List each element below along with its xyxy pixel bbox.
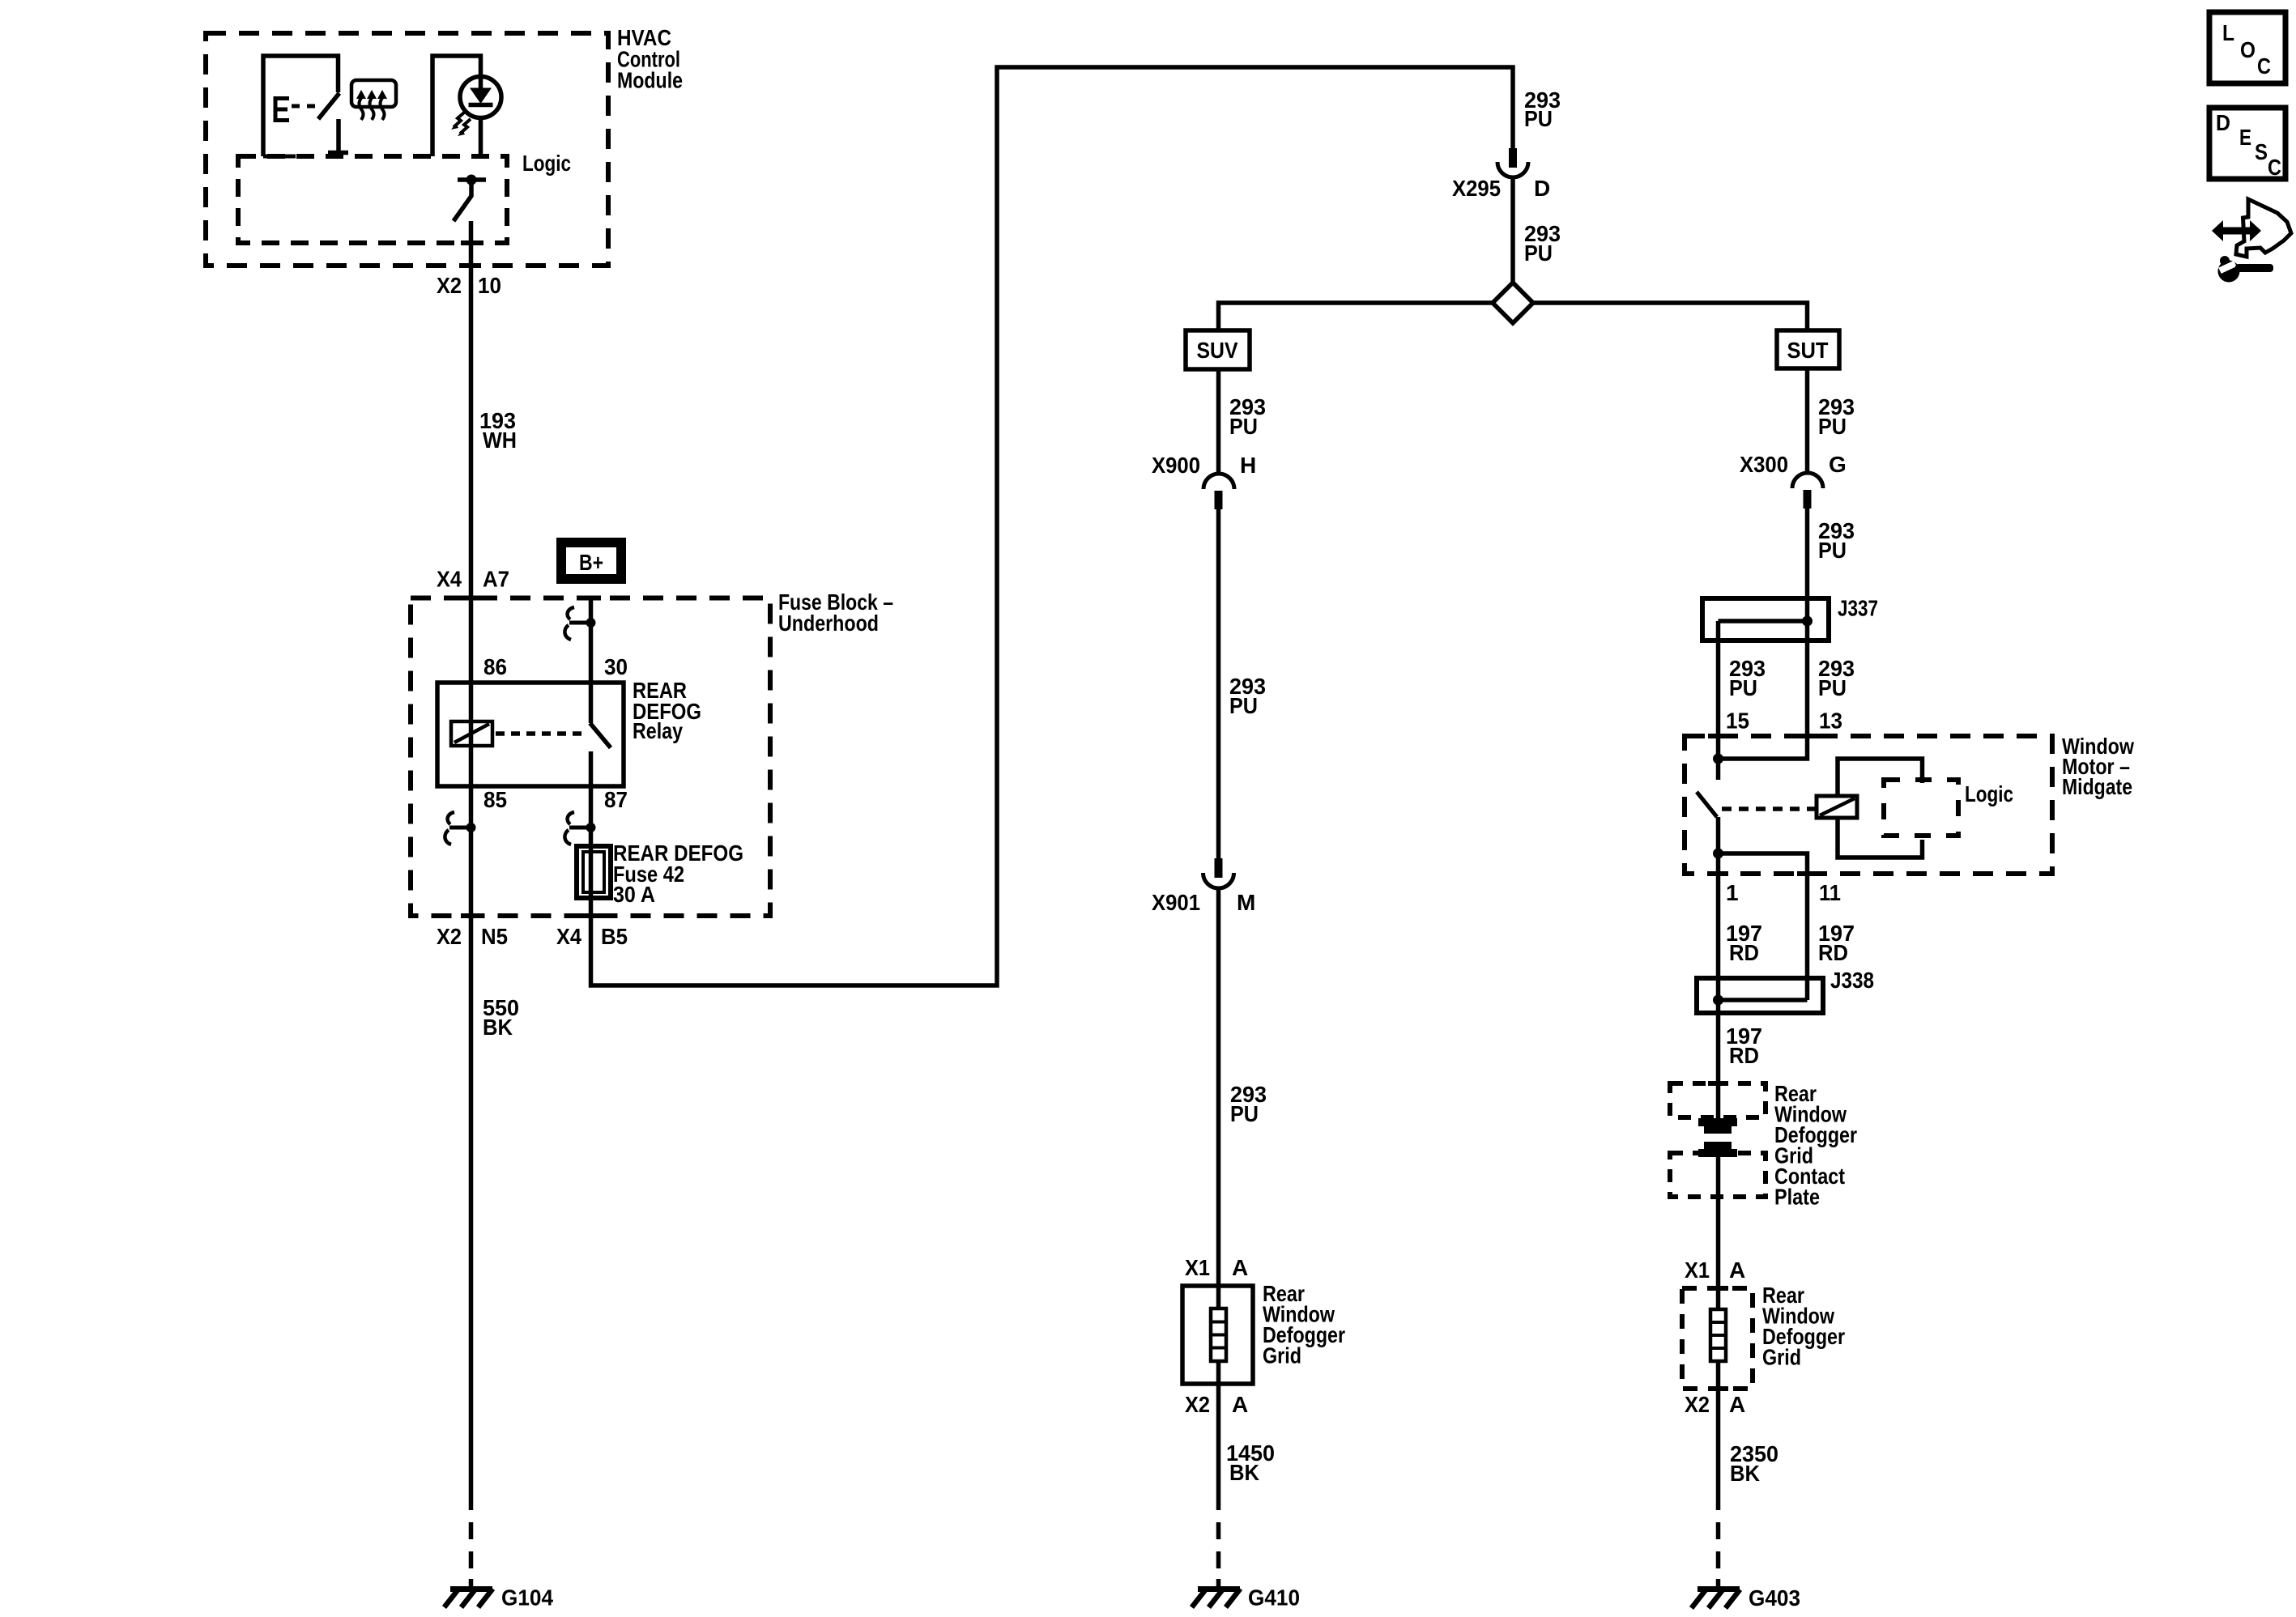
- svg-text:PU: PU: [1524, 106, 1553, 131]
- wire label 2350 BK: [1730, 1441, 1778, 1486]
- wrench icon: [2218, 256, 2274, 283]
- svg-text:30 A: 30 A: [613, 882, 655, 907]
- logic output switch contact: [458, 175, 486, 185]
- svg-text:PU: PU: [1230, 1101, 1259, 1126]
- wire label 193 WH: [479, 408, 517, 453]
- svg-text:11: 11: [1819, 880, 1841, 905]
- indicator LED box: [432, 56, 481, 156]
- connector label X900 cavity H: [1152, 453, 1256, 478]
- connector label X1 pin A right grid: [1685, 1257, 1745, 1283]
- wire label 293 PU SUV: [1229, 394, 1266, 439]
- svg-text:30: 30: [604, 654, 628, 679]
- connector label X2 pin 10: [437, 273, 501, 298]
- svg-text:BK: BK: [1730, 1461, 1760, 1486]
- svg-text:A7: A7: [483, 567, 509, 592]
- svg-text:SUT: SUT: [1787, 338, 1829, 363]
- connector label X300 cavity G: [1740, 452, 1847, 477]
- svg-text:10: 10: [478, 273, 501, 298]
- splice pack J338: [1697, 978, 1823, 1013]
- wire grid to G403: [1716, 1361, 1721, 1510]
- part replace arrow icon: [2212, 199, 2291, 257]
- tick at contact box top crossing: [1708, 1081, 1728, 1086]
- dashed wire to G410: [1216, 1522, 1221, 1589]
- wire X300 to J337: [1805, 509, 1810, 621]
- svg-text:BK: BK: [1229, 1460, 1259, 1485]
- inline connector X901: [1203, 858, 1234, 888]
- svg-text:Module: Module: [617, 68, 683, 93]
- svg-text:G: G: [1829, 452, 1847, 477]
- svg-text:J337: J337: [1838, 596, 1878, 621]
- Rear Window Defogger Grid box SUT: [1682, 1288, 1753, 1389]
- wire X295 to splice diamond: [1510, 177, 1515, 284]
- svg-text:G403: G403: [1749, 1585, 1800, 1611]
- grid heating element SUV: [1211, 1308, 1226, 1361]
- svg-text:X2: X2: [1685, 1392, 1710, 1417]
- rear defog switch box: [263, 56, 339, 156]
- motor switch lower wire: [1716, 817, 1721, 853]
- inline connector X295: [1497, 148, 1528, 177]
- LED light arrows: [451, 113, 471, 136]
- svg-text:X2: X2: [437, 273, 462, 298]
- svg-text:X901: X901: [1152, 890, 1200, 915]
- HVAC Control Module box: [206, 33, 608, 266]
- motor switch junction bottom: [1713, 849, 1723, 859]
- svg-text:X300: X300: [1740, 452, 1788, 477]
- Rear Window Defogger Grid label SUV: [1263, 1281, 1345, 1368]
- svg-text:PU: PU: [1818, 414, 1847, 439]
- ground G410: [1192, 1589, 1241, 1607]
- svg-text:X1: X1: [1685, 1257, 1710, 1283]
- svg-text:1: 1: [1726, 880, 1739, 905]
- wire label 293 PU lower: [1230, 1082, 1267, 1126]
- relay control dashed link: [496, 731, 585, 736]
- logic output switch blade: [454, 180, 471, 221]
- svg-text:15: 15: [1726, 709, 1749, 734]
- Fuse Block Underhood box: [411, 598, 770, 917]
- contact plate lower dashed box: [1670, 1153, 1766, 1197]
- svg-text:RD: RD: [1729, 940, 1759, 965]
- wire label 293 PU middle: [1229, 674, 1266, 718]
- svg-text:PU: PU: [1229, 693, 1258, 718]
- svg-text:G104: G104: [501, 1585, 553, 1611]
- svg-text:WH: WH: [483, 428, 517, 453]
- connector label X2 pin N5: [437, 924, 508, 949]
- svg-text:E: E: [2239, 125, 2251, 150]
- wire label 293 PU top: [1524, 87, 1561, 131]
- wire label 197 RD pin 11: [1818, 921, 1855, 965]
- svg-text:L: L: [2222, 20, 2234, 45]
- REAR DEFOG Fuse 42 label: [613, 840, 743, 907]
- svg-text:Midgate: Midgate: [2062, 774, 2132, 799]
- Rear Window Defogger Grid label SUT: [1762, 1283, 1845, 1370]
- svg-text:C: C: [2268, 155, 2281, 180]
- motor coil loop lower: [1838, 818, 1923, 857]
- connector label X2 pin A left grid: [1185, 1392, 1248, 1417]
- svg-text:RD: RD: [1729, 1043, 1759, 1068]
- Window Motor Midgate box: [1685, 736, 2052, 874]
- svg-text:X900: X900: [1152, 453, 1200, 478]
- wire diamond to SUT: [1533, 303, 1808, 330]
- inline connector X900: [1203, 474, 1234, 509]
- ground G104: [445, 1589, 493, 1607]
- svg-text:X1: X1: [1185, 1255, 1210, 1280]
- svg-text:87: 87: [604, 787, 628, 812]
- LOC icon: [2209, 12, 2285, 83]
- wire SUT to X300: [1805, 368, 1810, 474]
- Window Motor Midgate label: [2062, 734, 2134, 799]
- svg-text:X4: X4: [437, 567, 462, 592]
- rear defog switch blade: [318, 93, 339, 119]
- connector label X4 pin B5: [556, 924, 628, 949]
- svg-text:RD: RD: [1818, 940, 1848, 965]
- tick at grid box bottom crossing: [1708, 1386, 1728, 1391]
- svg-text:M: M: [1237, 890, 1255, 915]
- tick at motor box top crossing left: [1708, 734, 1728, 738]
- clip terminal at pin 30: [564, 607, 595, 640]
- svg-text:H: H: [1240, 453, 1256, 478]
- defogger indicator icon: [351, 80, 396, 120]
- svg-text:D: D: [1534, 176, 1550, 201]
- svg-text:Logic: Logic: [522, 151, 571, 176]
- svg-text:PU: PU: [1229, 414, 1258, 439]
- svg-text:Logic: Logic: [1965, 781, 2013, 806]
- wire label 1450 BK: [1226, 1440, 1275, 1485]
- splice pack J337: [1702, 598, 1829, 640]
- svg-text:Grid: Grid: [1762, 1345, 1801, 1370]
- svg-text:86: 86: [483, 654, 507, 679]
- wire grid to G410: [1216, 1361, 1221, 1510]
- svg-text:A: A: [1232, 1392, 1248, 1417]
- svg-text:X4: X4: [556, 924, 581, 949]
- svg-text:G410: G410: [1248, 1585, 1300, 1611]
- contact plate upper contact: [1698, 1118, 1737, 1134]
- motor coil loop upper: [1838, 759, 1923, 796]
- contact plate upper dashed box: [1670, 1083, 1766, 1117]
- relay coil: [451, 721, 492, 746]
- clip terminal at pin 87: [564, 812, 595, 845]
- tick at grid box top crossing: [1708, 1286, 1728, 1291]
- wire label 293 PU below X295: [1524, 221, 1561, 266]
- HVAC Control Module label: [617, 25, 683, 93]
- tick at motor box bottom crossing left: [1708, 871, 1728, 876]
- connector label X2 pin A right grid: [1685, 1392, 1745, 1417]
- wire label 293 PU pin 15: [1729, 656, 1766, 700]
- svg-text:A: A: [1729, 1392, 1745, 1417]
- wire motor pin 11 to J338: [1719, 853, 1808, 1000]
- wire label 197 RD pin 1: [1726, 921, 1762, 965]
- wire B+ to relay pin 30: [589, 598, 594, 723]
- wire label 293 PU pin 13: [1818, 656, 1855, 700]
- svg-text:A: A: [1232, 1255, 1248, 1280]
- wire motor pin 1 to J338: [1716, 853, 1721, 1118]
- motor relay coil: [1817, 796, 1857, 818]
- Logic box HVAC: [238, 156, 507, 243]
- REAR DEFOG Fuse 42: [577, 846, 611, 898]
- motor Logic box: [1884, 780, 1958, 836]
- svg-text:X295: X295: [1452, 176, 1501, 201]
- motor switch upper contact wire: [1716, 759, 1721, 780]
- svg-text:13: 13: [1819, 709, 1842, 734]
- svg-text:O: O: [2240, 37, 2256, 62]
- connector label X901 cavity M: [1152, 890, 1255, 915]
- svg-text:X2: X2: [1185, 1392, 1210, 1417]
- svg-text:Underhood: Underhood: [778, 611, 879, 636]
- svg-text:Plate: Plate: [1774, 1185, 1820, 1210]
- svg-text:Grid: Grid: [1263, 1343, 1301, 1368]
- wire contact plate to grid SUT: [1716, 1157, 1721, 1309]
- dashed wire to G104: [469, 1522, 474, 1589]
- Rear Window Defogger Grid Contact Plate label: [1774, 1081, 1857, 1210]
- svg-text:D: D: [2216, 110, 2230, 135]
- wire SUV to X900: [1216, 369, 1221, 475]
- clip terminal at pin 85: [445, 812, 475, 845]
- wire label 550 BK: [483, 995, 519, 1040]
- svg-text:C: C: [2257, 53, 2271, 79]
- svg-text:S: S: [2255, 139, 2268, 164]
- wire label 197 RD below J338: [1726, 1023, 1762, 1068]
- wire X900 to X901: [1216, 509, 1221, 858]
- tick at motor box bottom crossing right: [1797, 871, 1817, 876]
- splice diamond: [1493, 283, 1533, 323]
- svg-text:A: A: [1729, 1257, 1745, 1283]
- tick at motor box top crossing right: [1797, 734, 1817, 738]
- SUT tag box: [1777, 330, 1839, 368]
- SUV tag box: [1186, 330, 1250, 369]
- dashed wire to G403: [1716, 1522, 1721, 1589]
- wire X901 to grid: [1216, 888, 1221, 1308]
- connector label X295 cavity D: [1452, 176, 1550, 201]
- contact plate lower contact: [1698, 1142, 1737, 1157]
- grid heating element SUT: [1710, 1309, 1726, 1361]
- svg-text:X2: X2: [437, 924, 462, 949]
- tick at logic box bottom crossing: [461, 240, 481, 245]
- relay switch blade: [590, 723, 611, 748]
- wire label 293 PU SUT: [1818, 394, 1855, 439]
- svg-text:85: 85: [483, 787, 507, 812]
- inline connector X300: [1792, 473, 1823, 509]
- motor control dashed link: [1722, 806, 1817, 811]
- indicator LED: [460, 77, 501, 118]
- tick at fuse block top crossing left: [461, 596, 481, 601]
- tick at fuse block bottom crossing left: [461, 913, 481, 918]
- svg-text:N5: N5: [481, 924, 508, 949]
- rear defog switch stub: [328, 119, 348, 153]
- wire HVAC output to ground G104: [469, 221, 474, 1510]
- svg-text:BK: BK: [483, 1015, 513, 1040]
- tick at fuse block top crossing right: [581, 596, 601, 601]
- Fuse Block Underhood label: [778, 589, 893, 636]
- svg-text:B+: B+: [579, 550, 603, 575]
- svg-text:J338: J338: [1830, 968, 1874, 993]
- svg-text:Relay: Relay: [633, 718, 683, 743]
- svg-text:PU: PU: [1729, 675, 1757, 700]
- DESC icon: [2209, 108, 2285, 180]
- wire diamond to SUV: [1219, 303, 1493, 330]
- rear defog switch contact E: [274, 96, 317, 122]
- Rear Window Defogger Grid box SUV: [1182, 1286, 1253, 1384]
- motor switch junction top: [1713, 754, 1723, 764]
- svg-text:PU: PU: [1818, 538, 1847, 563]
- connector label X1 pin A left grid: [1185, 1255, 1248, 1280]
- REAR DEFOG Relay label: [633, 678, 701, 743]
- REAR DEFOG Relay box: [437, 683, 624, 786]
- tick at fuse block bottom crossing right: [581, 913, 601, 918]
- svg-text:PU: PU: [1818, 675, 1847, 700]
- wire J337 to motor pin 15: [1716, 621, 1721, 759]
- connector label X4 pin A7: [437, 567, 509, 592]
- svg-text:B5: B5: [601, 924, 628, 949]
- tick at HVAC box bottom crossing: [461, 263, 481, 268]
- ground G403: [1692, 1589, 1740, 1609]
- wire J337 to motor pin 13: [1719, 621, 1808, 759]
- svg-text:SUV: SUV: [1197, 338, 1238, 363]
- wire relay pin 87 to corner: [591, 67, 1514, 985]
- svg-text:PU: PU: [1524, 240, 1553, 266]
- wire label 293 PU above J337: [1818, 518, 1855, 563]
- motor switch blade: [1697, 792, 1717, 817]
- B+ battery feed symbol: [561, 543, 621, 579]
